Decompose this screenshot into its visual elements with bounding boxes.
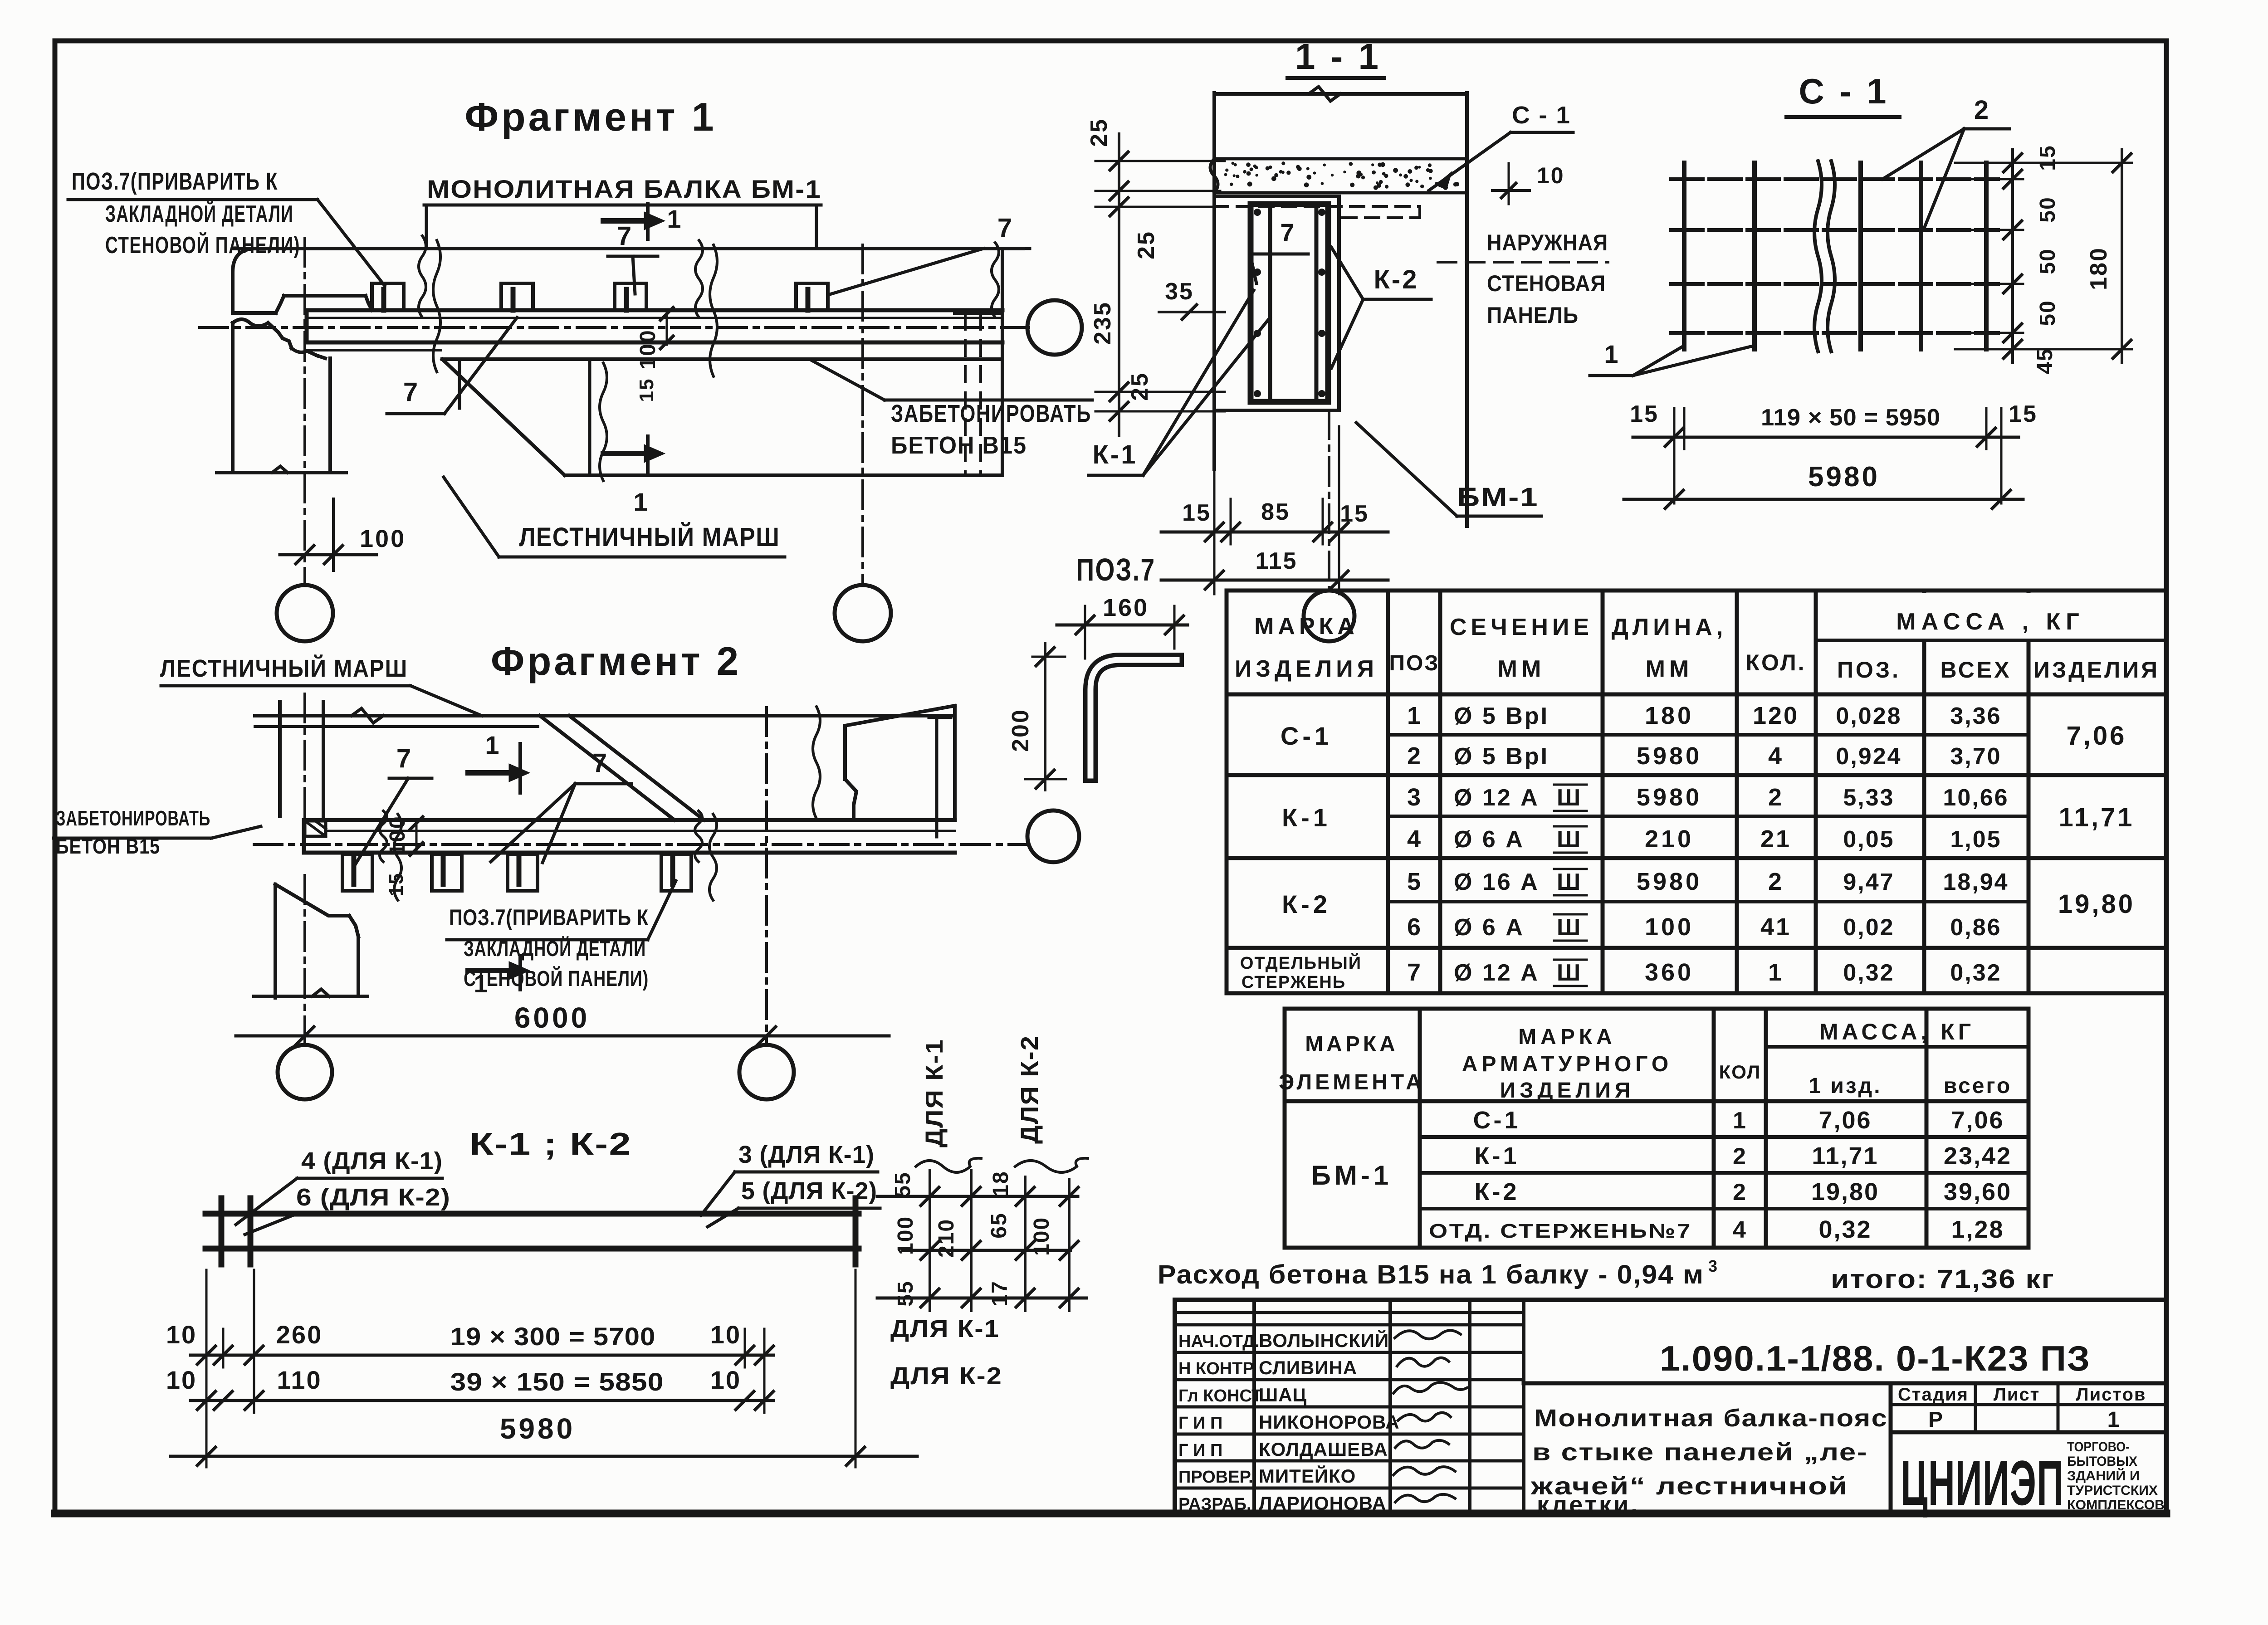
svg-text:2: 2 — [1768, 868, 1784, 895]
svg-text:Ø 6 А: Ø 6 А — [1454, 914, 1525, 941]
svg-text:С - 1: С - 1 — [1512, 102, 1571, 129]
svg-text:БМ-1: БМ-1 — [1311, 1160, 1392, 1191]
svg-text:Р: Р — [1928, 1408, 1944, 1432]
svg-text:6000: 6000 — [514, 1001, 590, 1034]
svg-text:БМ-1: БМ-1 — [1457, 483, 1539, 512]
svg-text:100: 100 — [636, 329, 660, 369]
svg-text:1: 1 — [633, 488, 647, 516]
svg-text:ПРОВЕР.: ПРОВЕР. — [1178, 1468, 1253, 1487]
svg-text:3,36: 3,36 — [1950, 703, 2001, 729]
svg-text:17: 17 — [988, 1280, 1012, 1306]
svg-text:7,06: 7,06 — [1951, 1107, 2004, 1134]
svg-text:210: 210 — [1645, 825, 1694, 853]
svg-text:РАЗРАБ.: РАЗРАБ. — [1178, 1495, 1251, 1514]
svg-text:ШАЦ: ШАЦ — [1259, 1384, 1307, 1405]
svg-text:ПОЗ.: ПОЗ. — [1837, 657, 1901, 683]
svg-text:15: 15 — [1630, 401, 1659, 427]
svg-text:К-2: К-2 — [1282, 890, 1331, 918]
svg-text:КОЛДАШЕВА: КОЛДАШЕВА — [1259, 1439, 1388, 1460]
svg-text:110: 110 — [277, 1366, 322, 1394]
svg-text:1: 1 — [667, 205, 681, 233]
svg-text:4: 4 — [1768, 742, 1784, 770]
svg-text:7: 7 — [617, 221, 631, 251]
svg-text:ММ: ММ — [1646, 656, 1693, 682]
svg-text:Лист: Лист — [1994, 1385, 2040, 1405]
svg-text:5: 5 — [1407, 868, 1422, 895]
svg-text:2: 2 — [1733, 1143, 1747, 1170]
svg-text:19,80: 19,80 — [2058, 889, 2135, 919]
svg-text:1: 1 — [2107, 1408, 2121, 1432]
svg-text:120: 120 — [1753, 702, 1799, 729]
svg-text:СЕЧЕНИЕ: СЕЧЕНИЕ — [1450, 614, 1593, 640]
svg-text:КОЛ.: КОЛ. — [1745, 650, 1806, 675]
svg-text:15: 15 — [1340, 501, 1369, 527]
svg-text:5980: 5980 — [1637, 784, 1702, 811]
svg-text:15: 15 — [1182, 500, 1211, 526]
svg-text:МАРКА: МАРКА — [1254, 613, 1359, 639]
svg-text:7,06: 7,06 — [1818, 1107, 1872, 1134]
svg-text:БЕТОН В15: БЕТОН В15 — [891, 432, 1027, 459]
svg-text:100: 100 — [1645, 913, 1694, 941]
svg-text:ДЛЯ К-2: ДЛЯ К-2 — [1016, 1035, 1043, 1144]
svg-text:10: 10 — [166, 1366, 197, 1394]
svg-text:5980: 5980 — [1637, 742, 1702, 770]
svg-text:9,47: 9,47 — [1843, 869, 1894, 895]
svg-text:Ø 6 А: Ø 6 А — [1454, 826, 1525, 853]
svg-text:0,924: 0,924 — [1836, 743, 1901, 770]
svg-text:15: 15 — [2009, 401, 2038, 427]
svg-text:НИКОНОРОВА: НИКОНОРОВА — [1259, 1411, 1400, 1433]
svg-text:39 × 150 = 5850: 39 × 150 = 5850 — [450, 1367, 664, 1396]
svg-text:10: 10 — [1537, 163, 1565, 188]
svg-text:39,60: 39,60 — [1944, 1178, 2012, 1205]
svg-text:итого: 71,36 кг: итого: 71,36 кг — [1831, 1264, 2055, 1294]
svg-text:1 - 1: 1 - 1 — [1295, 36, 1381, 77]
svg-text:6: 6 — [1407, 913, 1422, 941]
svg-text:Фрагмент 1: Фрагмент 1 — [465, 94, 717, 139]
svg-text:7: 7 — [1280, 218, 1294, 247]
svg-text:10,66: 10,66 — [1943, 785, 2009, 811]
svg-text:ВОЛЫНСКИЙ: ВОЛЫНСКИЙ — [1259, 1329, 1389, 1351]
svg-text:Стадия: Стадия — [1898, 1385, 1969, 1405]
svg-text:ПОЗ.7: ПОЗ.7 — [1076, 552, 1156, 587]
svg-text:ДЛИНА,: ДЛИНА, — [1612, 614, 1727, 640]
svg-text:ПОЗ: ПОЗ — [1389, 651, 1440, 675]
svg-text:всего: всего — [1944, 1074, 2012, 1098]
svg-text:360: 360 — [1645, 959, 1694, 986]
svg-text:Ш: Ш — [1557, 826, 1580, 853]
svg-text:клетки.: клетки. — [1537, 1491, 1640, 1518]
svg-text:1,05: 1,05 — [1950, 826, 2001, 853]
svg-text:БЕТОН В15: БЕТОН В15 — [56, 834, 160, 858]
svg-text:ЗАКЛАДНОЙ ДЕТАЛИ: ЗАКЛАДНОЙ ДЕТАЛИ — [105, 200, 293, 227]
svg-text:НАРУЖНАЯ: НАРУЖНАЯ — [1487, 230, 1608, 255]
svg-text:Ш: Ш — [1557, 960, 1580, 986]
svg-text:К-1: К-1 — [1282, 803, 1331, 832]
svg-text:ОТД. СТЕРЖЕНЬ№7: ОТД. СТЕРЖЕНЬ№7 — [1429, 1220, 1692, 1242]
svg-text:Листов: Листов — [2076, 1385, 2146, 1405]
svg-text:2: 2 — [1768, 784, 1784, 811]
svg-text:0,32: 0,32 — [1818, 1216, 1872, 1243]
svg-text:6 (ДЛЯ К-2): 6 (ДЛЯ К-2) — [296, 1184, 450, 1211]
svg-text:0,32: 0,32 — [1843, 960, 1894, 986]
svg-text:1,28: 1,28 — [1951, 1216, 2004, 1243]
svg-text:МИТЕЙКО: МИТЕЙКО — [1259, 1465, 1356, 1487]
svg-text:4: 4 — [1733, 1217, 1747, 1243]
svg-text:0,05: 0,05 — [1843, 826, 1894, 853]
svg-text:1: 1 — [1407, 702, 1422, 729]
svg-text:ПАНЕЛЬ: ПАНЕЛЬ — [1487, 303, 1579, 328]
svg-text:Монолитная балка-пояс: Монолитная балка-пояс — [1534, 1405, 1888, 1432]
svg-text:ДЛЯ К-1: ДЛЯ К-1 — [921, 1039, 948, 1147]
svg-text:Н КОНТР: Н КОНТР — [1178, 1359, 1254, 1378]
svg-text:3,70: 3,70 — [1950, 743, 2001, 770]
svg-text:25: 25 — [1133, 230, 1159, 259]
svg-text:ММ: ММ — [1498, 656, 1545, 682]
svg-text:41: 41 — [1760, 913, 1791, 941]
svg-text:25: 25 — [1086, 118, 1112, 147]
svg-text:3 (ДЛЯ К-1): 3 (ДЛЯ К-1) — [738, 1141, 875, 1168]
svg-text:2: 2 — [1733, 1179, 1747, 1205]
svg-text:55: 55 — [891, 1171, 915, 1197]
svg-text:160: 160 — [1103, 594, 1149, 621]
svg-text:210: 210 — [934, 1219, 958, 1258]
svg-text:МОНОЛИТНАЯ БАЛКА БМ-1: МОНОЛИТНАЯ БАЛКА БМ-1 — [427, 175, 821, 203]
svg-text:3: 3 — [1708, 1257, 1717, 1275]
svg-text:115: 115 — [1256, 548, 1298, 574]
svg-text:55: 55 — [894, 1280, 918, 1306]
svg-text:НАЧ.ОТД.: НАЧ.ОТД. — [1178, 1332, 1260, 1351]
svg-text:ИЗДЕЛИЯ: ИЗДЕЛИЯ — [1235, 656, 1378, 682]
svg-text:7: 7 — [1407, 959, 1422, 986]
svg-text:К-2: К-2 — [1374, 265, 1419, 294]
svg-text:в стыке панелей „ле-: в стыке панелей „ле- — [1532, 1439, 1868, 1466]
svg-text:15: 15 — [635, 378, 658, 402]
svg-text:7,06: 7,06 — [2067, 721, 2127, 751]
svg-text:1.090.1-1/88. 0-1-К23 ПЗ: 1.090.1-1/88. 0-1-К23 ПЗ — [1660, 1338, 2091, 1378]
svg-text:19,80: 19,80 — [1811, 1178, 1879, 1205]
svg-text:АРМАТУРНОГО: АРМАТУРНОГО — [1462, 1052, 1672, 1076]
svg-text:50: 50 — [2036, 196, 2060, 222]
svg-text:МАССА , КГ: МАССА , КГ — [1896, 609, 2085, 635]
svg-text:5980: 5980 — [500, 1412, 575, 1445]
svg-text:ОТДЕЛЬНЫЙ: ОТДЕЛЬНЫЙ — [1240, 952, 1362, 973]
svg-text:0,32: 0,32 — [1950, 960, 2001, 986]
svg-text:Фрагмент 2: Фрагмент 2 — [491, 639, 741, 683]
svg-text:2: 2 — [1974, 95, 1989, 125]
svg-text:15: 15 — [385, 873, 407, 897]
svg-text:МАССА, КГ: МАССА, КГ — [1819, 1019, 1975, 1044]
svg-text:К-1: К-1 — [1475, 1142, 1520, 1170]
svg-text:200: 200 — [1007, 708, 1034, 752]
svg-text:21: 21 — [1760, 825, 1791, 853]
svg-text:100: 100 — [894, 1216, 918, 1255]
svg-text:7: 7 — [592, 748, 607, 778]
svg-text:ПОЗ.7(ПРИВАРИТЬ К: ПОЗ.7(ПРИВАРИТЬ К — [72, 168, 278, 195]
svg-text:1: 1 — [1604, 340, 1618, 368]
svg-text:7: 7 — [997, 213, 1012, 243]
svg-text:ЦНИИЭП: ЦНИИЭП — [1901, 1447, 2064, 1518]
svg-text:К-2: К-2 — [1475, 1178, 1520, 1205]
svg-text:10: 10 — [710, 1366, 741, 1394]
svg-text:МАРКА: МАРКА — [1518, 1025, 1616, 1049]
svg-text:Г И П: Г И П — [1178, 1441, 1222, 1460]
svg-text:45: 45 — [2033, 348, 2057, 374]
svg-text:БЫТОВЫХ: БЫТОВЫХ — [2067, 1454, 2137, 1469]
svg-text:С - 1: С - 1 — [1799, 71, 1889, 111]
svg-text:ЛЕСТНИЧНЫЙ МАРШ: ЛЕСТНИЧНЫЙ МАРШ — [519, 522, 780, 552]
svg-text:11,71: 11,71 — [2059, 803, 2135, 832]
svg-text:ПОЗ.7(ПРИВАРИТЬ К: ПОЗ.7(ПРИВАРИТЬ К — [449, 905, 649, 930]
svg-text:КОЛ: КОЛ — [1719, 1061, 1761, 1083]
svg-text:5 (ДЛЯ К-2): 5 (ДЛЯ К-2) — [741, 1177, 877, 1205]
svg-text:Ø 5 ВрI: Ø 5 ВрI — [1454, 703, 1549, 729]
svg-text:ЛАРИОНОВА: ЛАРИОНОВА — [1259, 1493, 1386, 1514]
svg-text:Ø 5 ВрI: Ø 5 ВрI — [1454, 743, 1549, 770]
svg-text:ЗДАНИЙ И: ЗДАНИЙ И — [2067, 1468, 2140, 1483]
svg-text:СЛИВИНА: СЛИВИНА — [1259, 1357, 1357, 1378]
svg-text:ЗАБЕТОНИРОВАТЬ: ЗАБЕТОНИРОВАТЬ — [891, 400, 1091, 427]
svg-text:50: 50 — [2036, 300, 2060, 326]
svg-text:260: 260 — [276, 1320, 323, 1349]
svg-text:100: 100 — [386, 815, 410, 855]
svg-text:119 × 50 = 5950: 119 × 50 = 5950 — [1761, 405, 1941, 431]
svg-text:К-1: К-1 — [1093, 440, 1138, 469]
svg-text:ЗАБЕТОНИРОВАТЬ: ЗАБЕТОНИРОВАТЬ — [56, 806, 210, 830]
svg-text:Расход бетона В15 на 1 балк: Расход бетона В15 на 1 балку - 0,94 м — [1158, 1260, 1704, 1289]
svg-text:Ш: Ш — [1557, 785, 1580, 811]
svg-text:5980: 5980 — [1637, 868, 1702, 895]
svg-text:23,42: 23,42 — [1944, 1142, 2012, 1170]
svg-text:1: 1 — [1733, 1108, 1747, 1134]
svg-text:180: 180 — [1645, 702, 1694, 729]
svg-text:Ø 12 А: Ø 12 А — [1454, 785, 1540, 811]
svg-text:35: 35 — [1165, 278, 1194, 305]
svg-text:5980: 5980 — [1808, 461, 1880, 493]
svg-text:100: 100 — [360, 525, 406, 552]
svg-text:СТЕНОВОЙ ПАНЕЛИ): СТЕНОВОЙ ПАНЕЛИ) — [464, 966, 649, 991]
svg-text:ИЗДЕЛИЯ: ИЗДЕЛИЯ — [1500, 1078, 1634, 1103]
svg-text:0,86: 0,86 — [1950, 914, 2001, 941]
svg-text:Ø 12 А: Ø 12 А — [1454, 960, 1540, 986]
svg-text:100: 100 — [1030, 1217, 1054, 1256]
svg-text:0,028: 0,028 — [1836, 703, 1901, 729]
svg-text:15: 15 — [2036, 145, 2060, 171]
svg-text:ДЛЯ К-1: ДЛЯ К-1 — [890, 1315, 1000, 1342]
svg-text:85: 85 — [1261, 499, 1290, 525]
svg-text:25: 25 — [1127, 372, 1153, 401]
svg-text:ЗАКЛАДНОЙ ДЕТАЛИ: ЗАКЛАДНОЙ ДЕТАЛИ — [464, 936, 646, 961]
svg-text:1 изд.: 1 изд. — [1809, 1074, 1882, 1098]
svg-text:1: 1 — [485, 731, 499, 759]
svg-text:180: 180 — [2086, 247, 2112, 290]
svg-text:ТУРИСТСКИХ: ТУРИСТСКИХ — [2067, 1483, 2158, 1498]
svg-text:7: 7 — [403, 377, 418, 407]
svg-text:5,33: 5,33 — [1843, 785, 1894, 811]
svg-text:Ø 16 А: Ø 16 А — [1454, 869, 1540, 895]
svg-text:ТОРГОВО-: ТОРГОВО- — [2067, 1440, 2130, 1454]
svg-text:С-1: С-1 — [1281, 722, 1332, 750]
svg-text:Г И П: Г И П — [1178, 1414, 1222, 1433]
svg-text:СТЕРЖЕНЬ: СТЕРЖЕНЬ — [1242, 973, 1346, 992]
svg-text:7: 7 — [396, 744, 411, 773]
svg-text:СТЕНОВОЙ ПАНЕЛИ): СТЕНОВОЙ ПАНЕЛИ) — [105, 232, 300, 259]
svg-text:50: 50 — [2036, 248, 2060, 274]
svg-text:К-1 ; К-2: К-1 ; К-2 — [469, 1126, 632, 1161]
svg-text:2: 2 — [1407, 742, 1422, 770]
svg-text:ЛЕСТНИЧНЫЙ МАРШ: ЛЕСТНИЧНЫЙ МАРШ — [160, 654, 408, 682]
svg-text:10: 10 — [166, 1320, 197, 1349]
svg-text:С-1: С-1 — [1473, 1107, 1520, 1134]
svg-text:18,94: 18,94 — [1943, 869, 2009, 895]
svg-text:235: 235 — [1090, 301, 1116, 345]
svg-text:0,02: 0,02 — [1843, 914, 1894, 941]
svg-text:Гл КОНСТ.: Гл КОНСТ. — [1178, 1386, 1265, 1405]
svg-text:ДЛЯ К-2: ДЛЯ К-2 — [890, 1362, 1002, 1390]
svg-text:ЭЛЕМЕНТА: ЭЛЕМЕНТА — [1279, 1070, 1425, 1094]
svg-text:3: 3 — [1407, 784, 1422, 811]
svg-text:4: 4 — [1407, 825, 1422, 853]
svg-text:ИЗДЕЛИЯ: ИЗДЕЛИЯ — [2033, 657, 2160, 683]
svg-text:Ш: Ш — [1557, 869, 1580, 895]
svg-text:ВСЕХ: ВСЕХ — [1940, 657, 2011, 683]
svg-text:СТЕНОВАЯ: СТЕНОВАЯ — [1487, 271, 1606, 296]
svg-text:11,71: 11,71 — [1812, 1142, 1878, 1170]
svg-text:КОМПЛЕКСОВ: КОМПЛЕКСОВ — [2067, 1498, 2165, 1513]
svg-text:19 × 300 = 5700: 19 × 300 = 5700 — [450, 1322, 656, 1351]
svg-text:Ш: Ш — [1557, 914, 1580, 941]
svg-text:МАРКА: МАРКА — [1305, 1032, 1398, 1056]
svg-text:18: 18 — [989, 1171, 1013, 1196]
svg-text:10: 10 — [710, 1320, 741, 1349]
svg-text:1: 1 — [1768, 959, 1784, 986]
svg-text:65: 65 — [987, 1212, 1011, 1238]
svg-text:4 (ДЛЯ К-1): 4 (ДЛЯ К-1) — [301, 1147, 443, 1175]
